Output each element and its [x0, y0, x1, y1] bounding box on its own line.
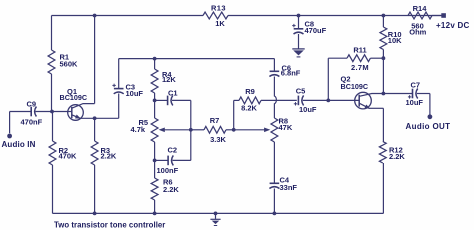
svg-text:C1: C1 — [168, 88, 178, 97]
svg-text:100nF: 100nF — [157, 166, 179, 175]
svg-text:12K: 12K — [162, 75, 176, 84]
svg-text:C2: C2 — [168, 145, 178, 154]
svg-text:10uF: 10uF — [406, 98, 424, 107]
svg-text:560K: 560K — [60, 59, 79, 68]
svg-text:Audio OUT: Audio OUT — [406, 122, 451, 131]
svg-text:1K: 1K — [215, 19, 225, 28]
svg-text:2.2K: 2.2K — [101, 152, 117, 161]
svg-text:Two transistor tone controller: Two transistor tone controller — [54, 220, 165, 229]
svg-text:4.7k: 4.7k — [131, 125, 146, 134]
svg-text:6.8nF: 6.8nF — [281, 69, 301, 78]
svg-text:3.3K: 3.3K — [210, 135, 226, 144]
svg-text:C7: C7 — [411, 81, 421, 90]
svg-text:470K: 470K — [59, 152, 78, 161]
svg-text:470nF: 470nF — [21, 118, 43, 127]
svg-text:BC109C: BC109C — [341, 82, 369, 91]
svg-text:10uF: 10uF — [299, 105, 317, 114]
svg-text:R7: R7 — [210, 116, 220, 125]
svg-text:2.7M: 2.7M — [351, 63, 369, 72]
svg-text:Ohm: Ohm — [409, 28, 426, 37]
svg-text:R9: R9 — [245, 87, 255, 96]
svg-text:2.2K: 2.2K — [163, 185, 179, 194]
svg-text:33nF: 33nF — [280, 183, 298, 192]
svg-text:C9: C9 — [27, 100, 37, 109]
svg-text:C5: C5 — [296, 87, 306, 96]
svg-text:R14: R14 — [413, 4, 428, 13]
svg-text:10K: 10K — [388, 36, 402, 45]
svg-text:+12v DC: +12v DC — [436, 21, 470, 30]
svg-text:47K: 47K — [279, 123, 293, 132]
svg-text:R13: R13 — [211, 3, 226, 12]
svg-text:BC109C: BC109C — [60, 93, 88, 102]
svg-text:2.2K: 2.2K — [389, 152, 405, 161]
svg-text:R11: R11 — [353, 45, 366, 54]
svg-text:10uF: 10uF — [126, 89, 144, 98]
svg-text:470uF: 470uF — [305, 26, 327, 35]
svg-text:Audio IN: Audio IN — [2, 140, 36, 149]
svg-text:8.2K: 8.2K — [241, 104, 257, 113]
